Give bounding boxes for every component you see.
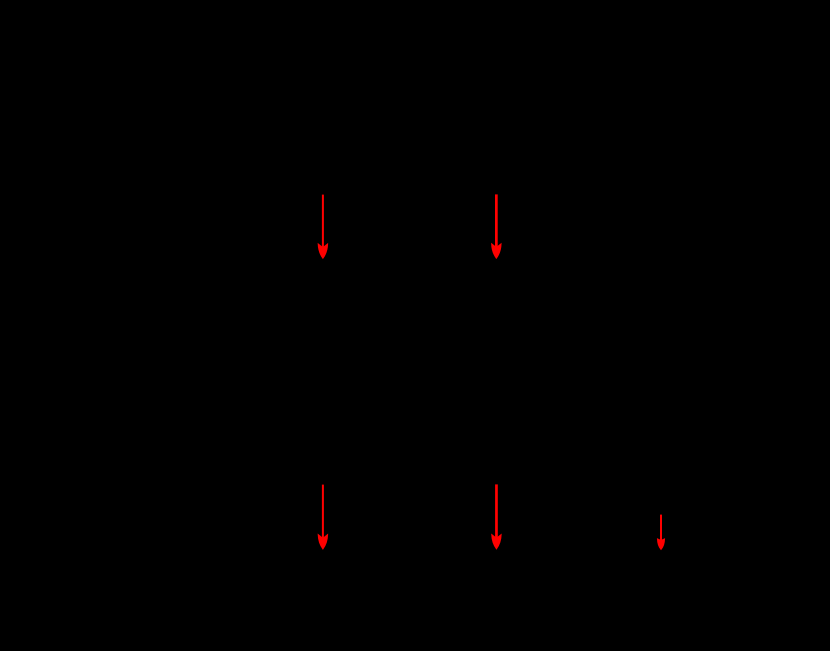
current arrow I1 (top-left branch) <box>318 195 328 259</box>
current arrow I2 (top-right branch) <box>492 194 502 258</box>
current arrow I5 (bottom-right branch, short) <box>657 515 664 550</box>
current arrow I4 (bottom-middle branch) <box>492 484 502 549</box>
current arrow I3 (bottom-left branch) <box>318 485 328 549</box>
